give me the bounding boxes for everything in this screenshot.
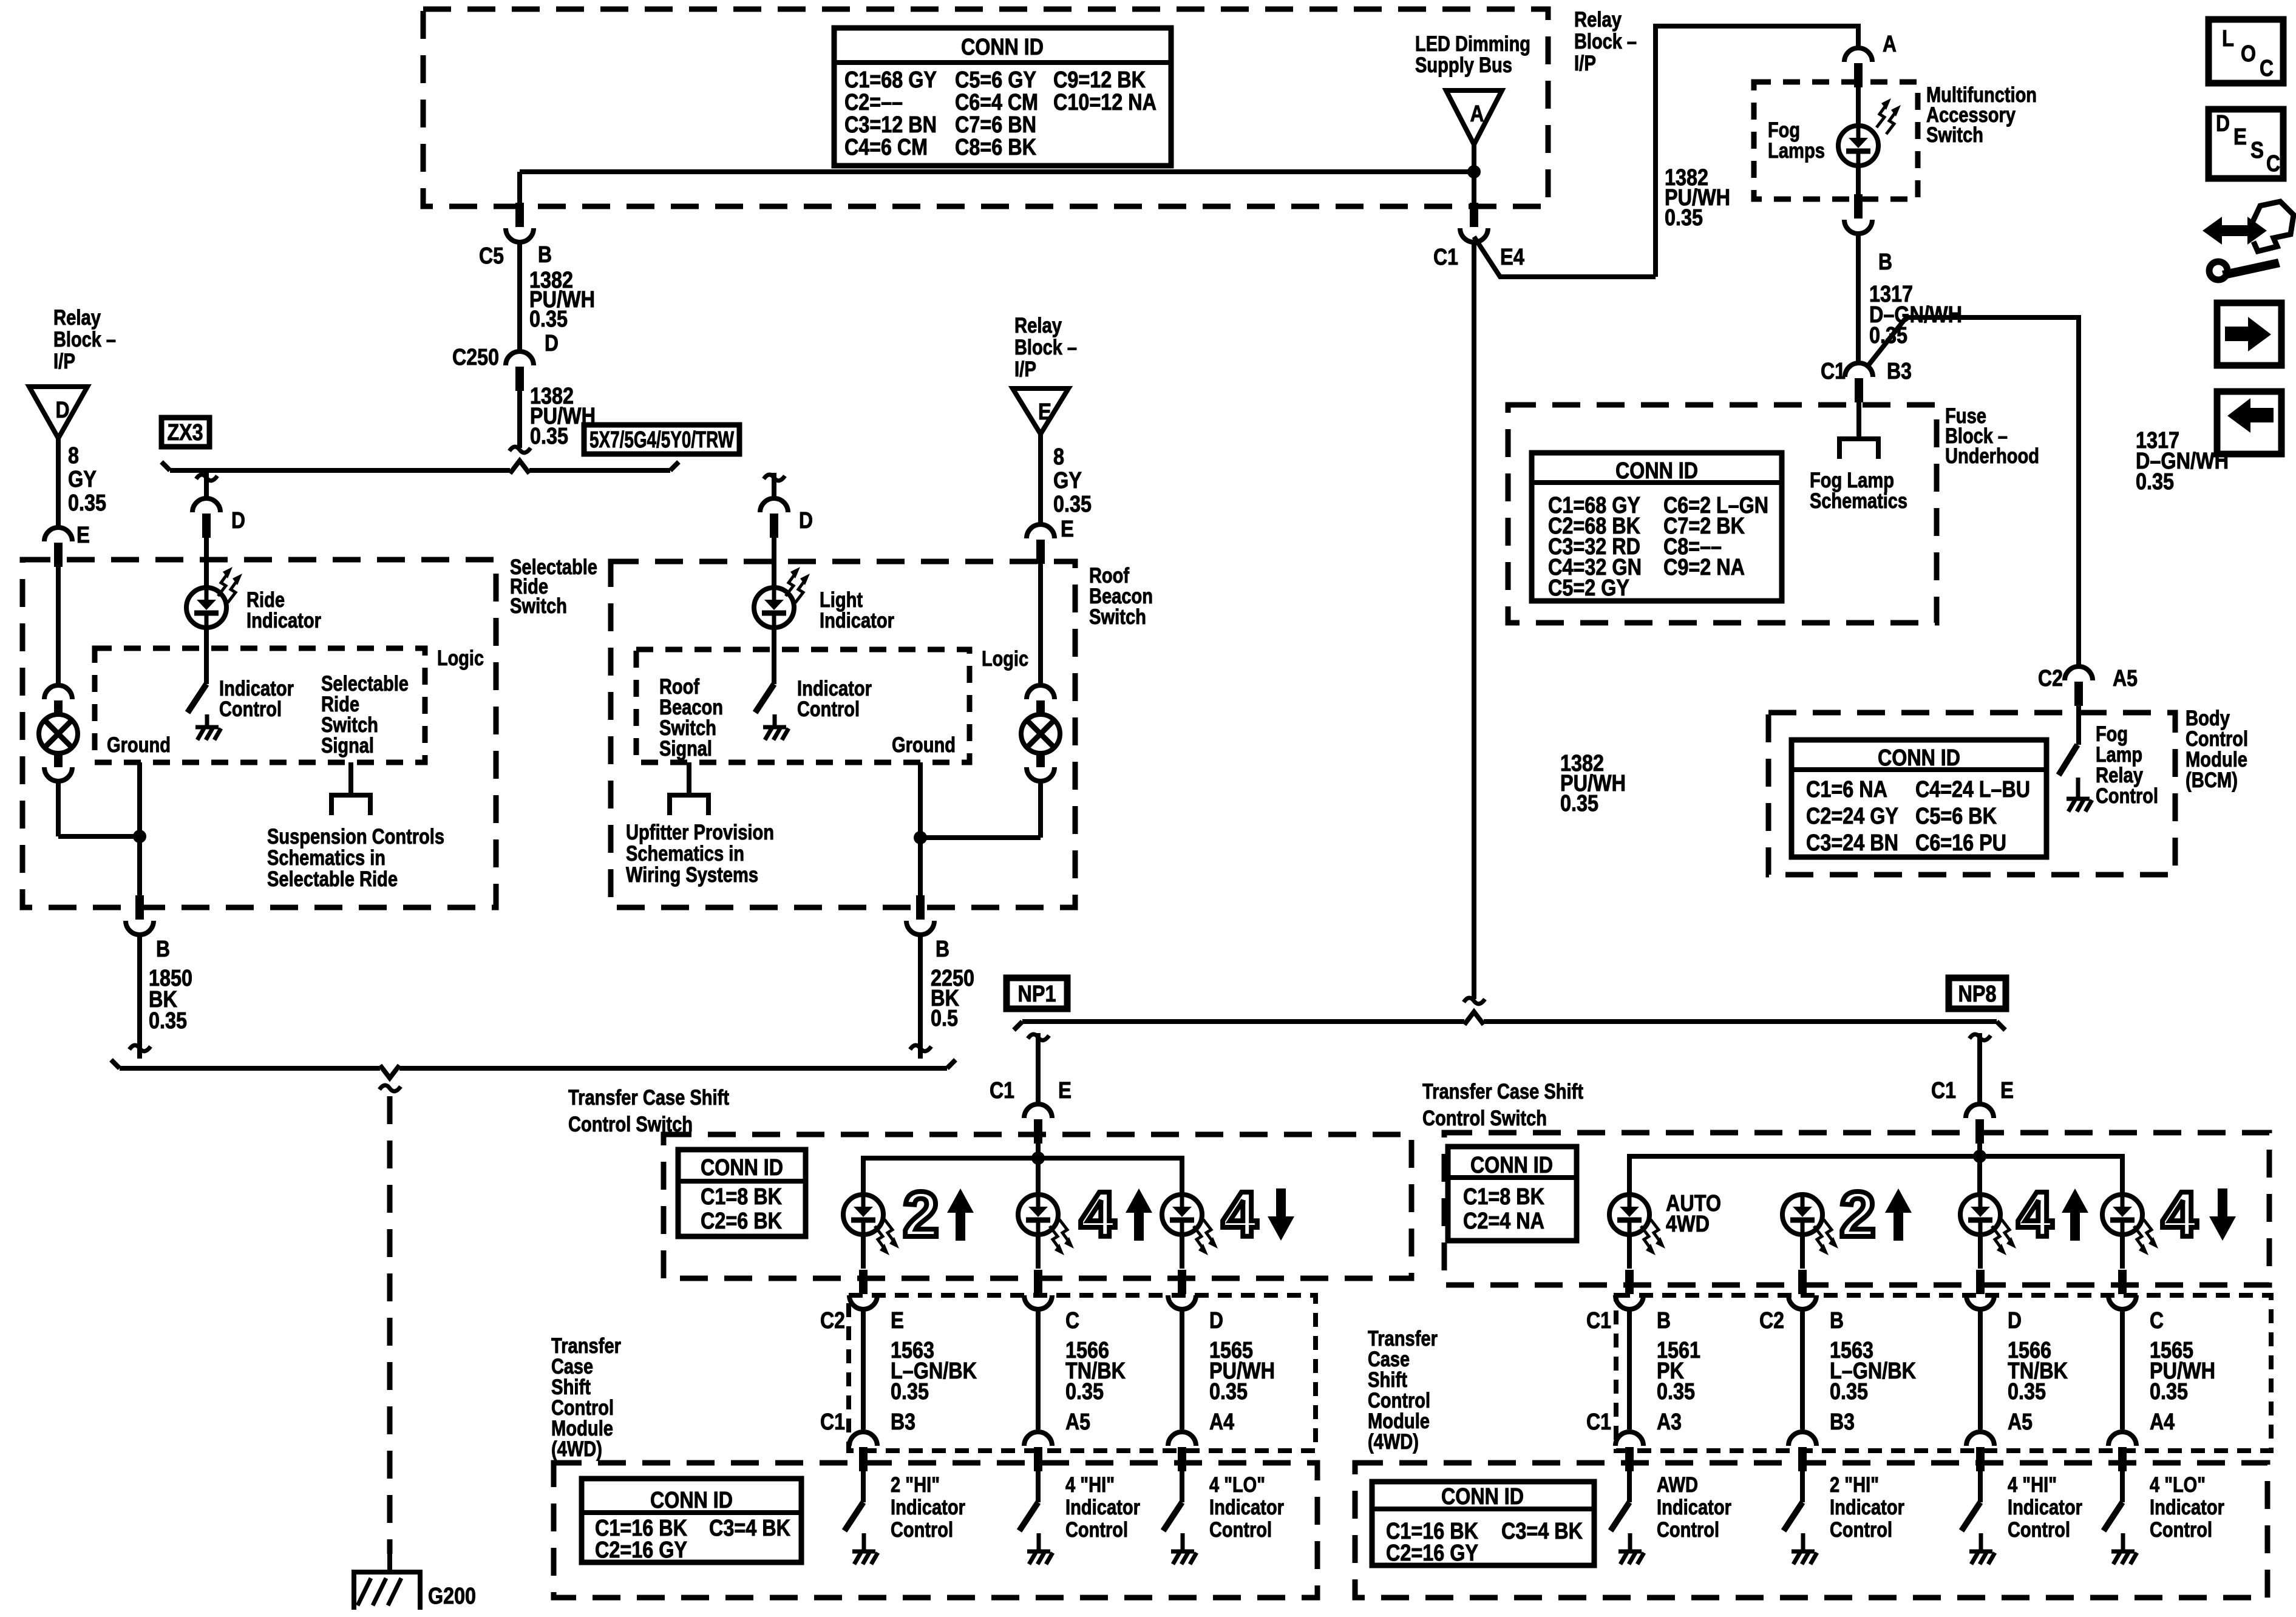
svg-text:E: E: [76, 523, 90, 548]
wire triangle A to bus: [1472, 143, 1476, 172]
svg-text:CONN ID: CONN ID: [650, 1488, 733, 1513]
svg-text:C3=4 BK: C3=4 BK: [1501, 1519, 1583, 1544]
svg-text:B3: B3: [1830, 1409, 1855, 1435]
svg-text:0.35: 0.35: [1209, 1379, 1248, 1405]
svg-text:C1: C1: [1586, 1308, 1611, 1334]
svg-text:Supply Bus: Supply Bus: [1415, 53, 1512, 77]
svg-text:Switch: Switch: [510, 594, 567, 618]
svg-text:C9=12 BK: C9=12 BK: [1053, 67, 1146, 93]
svg-text:2 "HI": 2 "HI": [1830, 1473, 1879, 1497]
svg-text:C1=68 GY: C1=68 GY: [844, 67, 937, 93]
svg-text:C2=6 BK: C2=6 BK: [701, 1209, 782, 1234]
svg-text:D: D: [231, 508, 245, 534]
connector C2/E: [859, 1270, 868, 1294]
connector C250/D: [506, 351, 534, 365]
wire into roof beacon box: [1038, 564, 1043, 684]
CONN ID table (relay block I/P): [834, 28, 1171, 166]
wire C1/B3 into fuse block: [1856, 402, 1861, 439]
wire C1/E4 diagonal to riser: [1474, 237, 1656, 277]
svg-text:B: B: [538, 242, 552, 268]
lamp roof beacon (circle-X): [1021, 714, 1060, 753]
svg-text:Control: Control: [2096, 784, 2158, 808]
interface dotted box (left): [849, 1295, 1316, 1451]
svg-text:C1: C1: [1586, 1409, 1611, 1435]
wire light LED to switch: [772, 627, 776, 684]
svg-text:Suspension Controls: Suspension Controls: [267, 825, 444, 849]
fuse block underhood dashed box: [1508, 405, 1937, 623]
svg-text:G200: G200: [428, 1584, 476, 1609]
svg-text:C5: C5: [479, 243, 504, 269]
svg-text:4WD: 4WD: [1666, 1212, 1710, 1237]
svg-text:B: B: [1657, 1308, 1671, 1334]
svg-text:LED Dimming: LED Dimming: [1415, 32, 1530, 56]
wire LED to upper connector x=3496: [2120, 1234, 2125, 1269]
connector C1/E (left switch): [1024, 1104, 1052, 1118]
svg-text:ZX3: ZX3: [168, 420, 203, 446]
node ground junction (roof): [914, 831, 927, 844]
svg-text:C2=24 GY: C2=24 GY: [1806, 804, 1898, 829]
connector /C: [2118, 1270, 2127, 1294]
wire into right transfer switch box: [1977, 1144, 1982, 1158]
node ground junction (left): [133, 830, 146, 843]
svg-text:Transfer Case Shift: Transfer Case Shift: [568, 1086, 729, 1110]
svg-text:C: C: [2150, 1308, 2164, 1334]
svg-text:C2=––: C2=––: [844, 90, 903, 115]
svg-text:Block –: Block –: [1014, 336, 1077, 359]
wire ground junction to B connector (roof): [918, 838, 923, 900]
svg-text:B: B: [936, 937, 949, 962]
connector C1/E4: [1470, 203, 1478, 227]
svg-text:0.35: 0.35: [1665, 205, 1703, 231]
CONN ID table (left switch): [678, 1150, 806, 1236]
wire A junction down to C1/E4: [1472, 172, 1476, 207]
svg-text:Transfer Case Shift: Transfer Case Shift: [1422, 1080, 1583, 1103]
wire LED to upper connector x=1422: [861, 1234, 866, 1269]
wire branch bus to D connector (ride): [196, 475, 217, 481]
svg-text:Indicator: Indicator: [1830, 1496, 1904, 1519]
svg-text:A: A: [1470, 101, 1484, 127]
svg-text:Schematics in: Schematics in: [626, 842, 744, 866]
svg-text:Control: Control: [2150, 1518, 2212, 1542]
svg-text:B3: B3: [891, 1409, 915, 1435]
wire branch bus to D connector (light): [764, 475, 785, 481]
connector /A4: [2108, 1432, 2136, 1446]
svg-text:C1: C1: [1821, 359, 1846, 384]
svg-text:4 "LO": 4 "LO": [1209, 1473, 1265, 1497]
svg-text:Control: Control: [891, 1518, 953, 1542]
connector B (1850): [135, 895, 144, 920]
svg-text:Wiring Systems: Wiring Systems: [626, 863, 758, 887]
svg-text:D: D: [799, 508, 813, 534]
svg-text:4 "LO": 4 "LO": [2150, 1473, 2206, 1497]
wire dashed to G200: [379, 1085, 401, 1091]
svg-text:4: 4: [1080, 1179, 1116, 1250]
wire connector to module x=2684: [1627, 1309, 1632, 1429]
BCM dashed box: [1768, 713, 2175, 875]
zx3 net label box: [161, 418, 209, 447]
wire into module x=1947: [1180, 1471, 1184, 1502]
svg-text:0.35: 0.35: [1560, 791, 1598, 816]
svg-text:2: 2: [903, 1179, 939, 1250]
svg-text:C5=6 GY: C5=6 GY: [955, 67, 1036, 93]
svg-text:Indicator: Indicator: [1209, 1496, 1284, 1519]
connector D (light indicator): [760, 498, 788, 512]
svg-text:E: E: [2000, 1078, 2014, 1103]
svg-text:D: D: [56, 398, 70, 423]
svg-text:Signal: Signal: [659, 737, 712, 761]
wire triangle E down: [1038, 433, 1043, 523]
connector above lamp (left): [44, 685, 72, 699]
wire into module x=3496: [2120, 1471, 2125, 1502]
svg-text:Selectable Ride: Selectable Ride: [267, 867, 398, 891]
svg-text:Underhood: Underhood: [1945, 444, 2039, 468]
CONN ID table (right module): [1372, 1482, 1594, 1565]
wire fog lamp LED bottom: [1856, 165, 1861, 200]
node rail junction (right): [1973, 1150, 1986, 1163]
svg-text:Control: Control: [1065, 1518, 1128, 1542]
connector /C: [1034, 1270, 1042, 1294]
svg-text:8: 8: [68, 443, 79, 469]
LED ride indicator: [186, 588, 226, 628]
svg-text:C4=24 L–BU: C4=24 L–BU: [1915, 777, 2030, 802]
connector E (left): [44, 527, 72, 541]
wire fog lamp LED top: [1856, 87, 1861, 126]
svg-text:Upfitter Provision: Upfitter Provision: [626, 821, 774, 844]
svg-text:GY: GY: [68, 467, 97, 492]
switch 2 "HI": [1784, 1502, 1802, 1531]
svg-text:(4WD): (4WD): [1368, 1430, 1419, 1454]
wire long 1382 drop to NP bus: [1472, 242, 1476, 999]
svg-text:0.35: 0.35: [1657, 1379, 1695, 1405]
right module dashed box: [1355, 1463, 2267, 1598]
svg-text:C1: C1: [820, 1409, 845, 1435]
wire connector to module x=3496: [2120, 1309, 2125, 1429]
connector C1/B: [1625, 1270, 1634, 1294]
wire LED to upper connector x=1947: [1180, 1234, 1184, 1269]
CONN ID table (left module): [582, 1479, 801, 1562]
svg-text:I/P: I/P: [53, 350, 75, 373]
svg-text:C1: C1: [1433, 245, 1458, 270]
svg-text:Indicator: Indicator: [891, 1496, 965, 1519]
wire D connector to ride LED: [204, 538, 209, 589]
wire C5 to C250: [517, 242, 522, 350]
wire C1/B3 diagonal to BCM riser: [1867, 317, 2079, 665]
LED left switch col3: [1162, 1195, 1202, 1235]
svg-text:Relay: Relay: [53, 306, 101, 330]
svg-text:E: E: [1061, 517, 1074, 542]
svg-text:C3=12 BN: C3=12 BN: [844, 112, 937, 138]
svg-text:0.35: 0.35: [1065, 1379, 1104, 1405]
wire lamp to ground junction (left): [56, 781, 61, 836]
svg-text:0.35: 0.35: [68, 490, 106, 516]
svg-text:4 "HI": 4 "HI": [2008, 1473, 2057, 1497]
node rail junction (left): [1031, 1151, 1045, 1165]
wire riser up to fog lamp feed: [1656, 26, 1858, 277]
svg-text:Logic: Logic: [437, 646, 484, 670]
triangle D (relay block): [29, 387, 87, 438]
switch ride indicator control: [188, 684, 206, 713]
selectable ride switch dashed box: [22, 560, 496, 907]
wire signal to suspension bracket: [348, 762, 353, 795]
svg-text:C4=6 CM: C4=6 CM: [844, 135, 928, 160]
connector /A5: [1966, 1432, 1994, 1446]
svg-text:C8=6 BK: C8=6 BK: [955, 135, 1036, 160]
svg-text:0.35: 0.35: [529, 307, 568, 332]
wire into module x=3262: [1978, 1471, 1983, 1502]
svg-text:B: B: [1878, 249, 1892, 275]
left transfer case switch dashed box: [664, 1134, 1411, 1278]
switch 4 "HI": [1961, 1502, 1980, 1531]
svg-text:0.35: 0.35: [2136, 469, 2174, 495]
connector A (multifunction switch): [1844, 48, 1872, 62]
connector B (2250): [916, 895, 925, 920]
wire into module x=1710: [1036, 1471, 1041, 1502]
svg-text:AWD: AWD: [1657, 1473, 1698, 1497]
svg-text:0.35: 0.35: [1830, 1379, 1868, 1405]
interface dotted box (right): [1616, 1295, 2271, 1451]
svg-text:Control: Control: [1209, 1518, 1272, 1542]
NP bus wire y=1683: [1022, 1019, 1464, 1024]
wire LED to upper connector x=1710: [1036, 1234, 1041, 1269]
connector C1/A3: [1615, 1432, 1643, 1446]
svg-text:A4: A4: [1209, 1409, 1234, 1435]
svg-text:0.35: 0.35: [530, 424, 568, 449]
goes-to bracket (upfitter provision): [670, 795, 708, 815]
connector /D: [1976, 1270, 1985, 1294]
svg-text:Ground: Ground: [892, 733, 956, 757]
LED fog lamps: [1838, 126, 1878, 166]
svg-text:CONN ID: CONN ID: [1441, 1484, 1524, 1510]
svg-text:5X7/5G4/5Y0/TRW: 5X7/5G4/5Y0/TRW: [589, 427, 734, 453]
LED right switch col1: [1609, 1195, 1649, 1235]
svg-text:Relay: Relay: [1574, 8, 1622, 32]
svg-text:Switch: Switch: [1926, 123, 1983, 147]
svg-text:Control: Control: [219, 697, 282, 721]
svg-text:Lamps: Lamps: [1768, 139, 1825, 163]
svg-text:D: D: [2216, 111, 2230, 137]
svg-text:C10=12 NA: C10=12 NA: [1053, 90, 1156, 115]
switch fog lamp relay control: [2059, 745, 2077, 775]
wire into module x=1422: [861, 1471, 866, 1502]
LED right switch col3: [1960, 1195, 2000, 1235]
svg-text:CONN ID: CONN ID: [1470, 1153, 1553, 1178]
svg-text:8: 8: [1053, 444, 1064, 470]
svg-text:2 "HI": 2 "HI": [891, 1473, 940, 1497]
ground G200 symbol: [354, 1570, 420, 1575]
svg-text:0.35: 0.35: [1053, 492, 1092, 517]
NP8 net label box: [1949, 978, 2006, 1009]
LED right switch col4: [2102, 1195, 2142, 1235]
svg-text:C6=4 CM: C6=4 CM: [955, 90, 1038, 115]
LED left switch col1: [843, 1195, 883, 1235]
CONN ID table (BCM): [1792, 740, 2046, 857]
svg-text:O: O: [2241, 41, 2256, 67]
connector C1/B3: [1845, 363, 1873, 377]
connector /B3: [1788, 1432, 1816, 1446]
roof beacon switch dashed box: [611, 561, 1075, 907]
svg-text:4: 4: [1222, 1179, 1258, 1250]
branch bus wire y=775: [170, 468, 510, 473]
svg-text:C1: C1: [1931, 1078, 1956, 1103]
CONN ID table (right switch): [1448, 1147, 1577, 1241]
svg-text:Indicator: Indicator: [820, 609, 894, 632]
svg-text:Indicator: Indicator: [2150, 1496, 2224, 1519]
svg-text:L: L: [2222, 26, 2234, 52]
svg-text:C1=8 BK: C1=8 BK: [701, 1184, 782, 1210]
svg-text:GY: GY: [1053, 468, 1082, 493]
svg-text:C3=4 BK: C3=4 BK: [709, 1516, 790, 1541]
svg-text:(4WD): (4WD): [551, 1437, 602, 1461]
svg-text:0.35: 0.35: [891, 1379, 929, 1405]
switch 4 "LO": [1163, 1502, 1182, 1531]
wire ride LED to switch: [204, 627, 209, 684]
triangle A (LED dimming supply bus): [1446, 90, 1502, 144]
wire C250 down to branch bus: [517, 391, 522, 448]
svg-text:Indicator: Indicator: [1065, 1496, 1140, 1519]
svg-text:CONN ID: CONN ID: [701, 1155, 783, 1181]
wire NP bus drop left: [1028, 1034, 1049, 1040]
connector C5/B: [515, 203, 524, 227]
right transfer case switch dashed box: [1444, 1133, 2269, 1285]
svg-text:CONN ID: CONN ID: [1878, 745, 1960, 771]
svg-text:4 "HI": 4 "HI": [1065, 1473, 1115, 1497]
svg-text:C2: C2: [2038, 666, 2063, 691]
svg-text:A5: A5: [2008, 1409, 2033, 1435]
svg-text:C3=24 BN: C3=24 BN: [1806, 830, 1898, 856]
icon box arrow left: [2217, 392, 2281, 454]
5X7/5G4/5Y0/TRW net label box: [584, 425, 739, 454]
svg-text:0.35: 0.35: [149, 1008, 187, 1034]
svg-text:C2: C2: [1759, 1308, 1784, 1334]
logic dashed box (roof beacon): [636, 649, 970, 762]
svg-text:D: D: [2008, 1308, 2022, 1334]
svg-text:C5=6 BK: C5=6 BK: [1915, 804, 1997, 829]
switch 4 "LO": [2104, 1502, 2122, 1531]
connector above lamp (roof beacon): [1027, 685, 1055, 699]
wire B to ground bus (right): [918, 935, 923, 1059]
wire LED to upper connector x=3262: [1978, 1234, 1983, 1269]
connector C1/B3: [849, 1432, 877, 1446]
svg-text:A: A: [1883, 32, 1897, 57]
wire triangle D down: [56, 437, 61, 526]
svg-text:(BCM): (BCM): [2186, 768, 2238, 792]
wire ground drop (left logic): [137, 762, 142, 836]
svg-text:C2=16 GY: C2=16 GY: [1386, 1541, 1478, 1566]
svg-text:C1: C1: [990, 1078, 1014, 1103]
svg-text:C: C: [2266, 151, 2280, 177]
switch 4 "HI": [1019, 1502, 1038, 1531]
wire connector to module x=1710: [1036, 1309, 1041, 1429]
svg-text:C: C: [1065, 1308, 1079, 1334]
goes-to bracket (fog lamp schematics): [1839, 439, 1878, 459]
relay block I/P (top) dashed box: [423, 9, 1548, 206]
svg-text:B3: B3: [1887, 359, 1912, 384]
wire lamp chain to ground junction (roof): [1038, 781, 1043, 838]
wire ground junction to B connector (left): [137, 836, 142, 900]
triangle E (relay block): [1013, 388, 1068, 434]
icon box arrow right: [2217, 303, 2281, 365]
LED left switch col2: [1018, 1195, 1058, 1235]
svg-text:C9=2 NA: C9=2 NA: [1663, 555, 1745, 580]
svg-text:C7=6 BN: C7=6 BN: [955, 112, 1036, 138]
svg-text:0.5: 0.5: [931, 1006, 958, 1031]
svg-text:CONN ID: CONN ID: [961, 35, 1044, 60]
svg-text:NP1: NP1: [1018, 981, 1056, 1007]
goes-to bracket (suspension controls): [331, 795, 370, 815]
svg-text:Block –: Block –: [1574, 30, 1637, 53]
svg-text:S: S: [2250, 138, 2264, 163]
wire connector to module x=1422: [861, 1309, 866, 1429]
LED light indicator: [754, 588, 794, 628]
svg-text:C1=6 NA: C1=6 NA: [1806, 777, 1887, 802]
switch light indicator control: [755, 684, 774, 713]
connector C1/E (right switch): [1966, 1104, 1994, 1118]
CONN ID table (fuse block underhood): [1532, 453, 1782, 601]
connector B (fog lamps): [1854, 194, 1863, 219]
svg-text:4: 4: [2017, 1179, 2053, 1250]
wire NP bus drop right: [1969, 1034, 1991, 1040]
connector /D: [1178, 1270, 1186, 1294]
LED rail wire (left switch): [863, 1158, 1182, 1196]
svg-text:A5: A5: [2113, 666, 2138, 691]
icon box LOC: [2209, 19, 2283, 83]
LED right switch col2: [1782, 1195, 1822, 1235]
svg-text:0.35: 0.35: [2008, 1379, 2046, 1405]
connector D (ride indicator): [192, 498, 220, 512]
wire B to C1/B3: [1856, 233, 1861, 362]
svg-text:Ground: Ground: [107, 733, 171, 757]
svg-text:E: E: [2233, 124, 2247, 150]
wire connector to module x=2969: [1800, 1309, 1805, 1429]
connector below lamp (roof beacon): [1036, 751, 1045, 767]
svg-text:Signal: Signal: [321, 734, 374, 758]
svg-text:C2: C2: [820, 1308, 845, 1334]
ground bus wire y=1760: [120, 1066, 380, 1071]
connector /A4: [1168, 1432, 1196, 1446]
svg-text:C2=4 NA: C2=4 NA: [1463, 1209, 1544, 1234]
svg-text:D: D: [1209, 1308, 1223, 1334]
svg-text:C2=16 GY: C2=16 GY: [595, 1537, 687, 1563]
svg-text:E: E: [891, 1308, 904, 1334]
left module dashed box: [554, 1463, 1317, 1598]
wire into module x=2969: [1800, 1471, 1805, 1502]
connector E (roof beacon): [1027, 524, 1055, 538]
node junction at A drop: [1467, 165, 1481, 178]
switch 2 "HI": [844, 1502, 863, 1531]
svg-text:Schematics: Schematics: [1810, 489, 1907, 513]
wire B to ground bus (left): [137, 935, 142, 1059]
wire signal to upfitter bracket: [687, 762, 691, 795]
connector C2/B: [1798, 1270, 1807, 1294]
bus wire inside relay block: [520, 169, 1474, 174]
svg-text:I/P: I/P: [1014, 358, 1036, 381]
svg-text:E: E: [1058, 1078, 1072, 1103]
svg-text:0.35: 0.35: [2150, 1379, 2188, 1405]
wire C2/A5 into BCM: [2076, 702, 2081, 745]
svg-text:Indicator: Indicator: [2008, 1496, 2082, 1519]
svg-text:NP8: NP8: [1958, 981, 1997, 1007]
svg-text:I/P: I/P: [1574, 52, 1596, 75]
icon box DESC: [2209, 109, 2283, 178]
wire into left transfer switch box: [1036, 1144, 1041, 1158]
svg-text:D: D: [545, 331, 559, 356]
svg-text:2: 2: [1840, 1179, 1876, 1250]
svg-text:Switch: Switch: [1089, 605, 1146, 629]
switch AWD: [1611, 1502, 1629, 1531]
wire into selectable ride switch box: [56, 567, 61, 684]
svg-text:Control: Control: [2008, 1518, 2070, 1542]
svg-text:B: B: [156, 937, 170, 962]
